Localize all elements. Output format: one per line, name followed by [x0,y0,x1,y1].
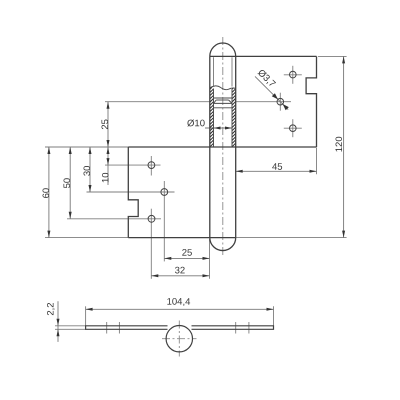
svg-text:50: 50 [62,178,73,189]
svg-text:25: 25 [100,119,111,130]
svg-text:45: 45 [272,162,283,173]
svg-text:Ø3,7: Ø3,7 [255,67,277,89]
svg-text:Ø10: Ø10 [187,118,205,129]
svg-text:2,2: 2,2 [45,302,56,315]
svg-text:32: 32 [175,265,186,276]
svg-text:104,4: 104,4 [167,297,191,308]
svg-text:30: 30 [82,166,93,177]
svg-text:10: 10 [100,172,111,183]
svg-text:60: 60 [41,188,52,199]
svg-text:25: 25 [182,248,193,259]
svg-text:120: 120 [334,136,345,152]
